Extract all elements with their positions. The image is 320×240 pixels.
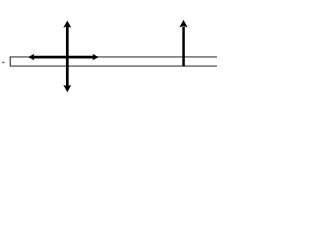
beam (thin horizontal bar, open at right edge) bbox=[10, 57, 217, 66]
upward force arrow at right bbox=[179, 20, 187, 66]
small gray dash at left edge bbox=[2, 62, 4, 63]
vertical double-headed arrow bbox=[63, 21, 71, 93]
horizontal double-headed arrow along beam top bbox=[28, 54, 98, 61]
